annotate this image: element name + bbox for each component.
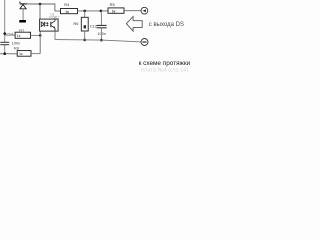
wire C13 top lead (100, 11, 102, 26)
optocoupler phototransistor (51, 19, 55, 31)
wire opto emitter down (54, 31, 56, 39)
wire opto collector stub (54, 17, 56, 19)
wire bottom-left horizontal (0, 53, 17, 55)
svg-text:C14: C14 (6, 32, 13, 36)
wire R8 right lead (31, 53, 40, 55)
resistor R7 (15, 32, 30, 38)
wire C13 bottom lead (100, 28, 102, 40)
node D junction dot on top rail (39, 3, 42, 6)
wire bottom rail (55, 40, 141, 42)
svg-text:с выхода DS: с выхода DS (149, 22, 184, 28)
optocoupler U1 box (40, 19, 59, 31)
svg-text:R4: R4 (64, 2, 70, 7)
svg-text:C13: C13 (90, 24, 97, 28)
zener diode VD cathode bar (20, 2, 27, 5)
resistor R4 (61, 9, 78, 14)
capacitor C13 (97, 25, 107, 27)
signal arrow from DS output (126, 17, 142, 32)
node G junction dot (83, 39, 86, 42)
svg-text:R6: R6 (73, 21, 79, 26)
svg-text:100n: 100n (12, 41, 21, 46)
wire R5 to input terminal (124, 10, 141, 12)
ground bar (19, 20, 26, 23)
wire zener anode lead (22, 9, 24, 20)
node C junction dot (39, 34, 42, 37)
svg-text:R7: R7 (19, 28, 25, 33)
svg-text:к схеме протяжки: к схеме протяжки (139, 60, 191, 67)
wire rail R4-R5 (78, 10, 109, 12)
node E junction dot (83, 10, 86, 13)
optocoupler coupling arrows (45, 22, 48, 26)
wire R7 left lead (5, 34, 15, 36)
wire R7 right lead (31, 34, 41, 36)
zener diode VD triangle (20, 5, 26, 9)
svg-text:6к: 6к (112, 9, 116, 13)
wire left vertical bus (4, 0, 6, 54)
resistor R8 (17, 51, 31, 57)
terminal X2 output (141, 39, 148, 46)
svg-text:плата №4 (стр.14): плата №4 (стр.14) (141, 68, 188, 73)
resistor R5 (108, 8, 124, 13)
svg-text:R5: R5 (110, 2, 116, 7)
node B junction dot (3, 52, 6, 55)
svg-text:R8: R8 (14, 46, 19, 50)
capacitor C14 (0, 42, 9, 44)
node F junction dot (100, 10, 103, 13)
optocoupler U1 LED (41, 22, 44, 27)
wire R6 top lead (84, 11, 86, 17)
wire R6 bottom lead (84, 31, 86, 40)
node H junction dot (100, 39, 103, 42)
wire top rail to opto (39, 4, 41, 19)
svg-text:6к: 6к (66, 10, 70, 14)
resistor R6 vertical (81, 17, 88, 31)
svg-text:1к: 1к (19, 52, 23, 56)
wire vertical opto-to-R8 (39, 31, 41, 53)
svg-text:PC817: PC817 (49, 16, 59, 20)
svg-text:1к: 1к (17, 34, 21, 38)
terminal X1 input (141, 7, 148, 14)
node A (dot on left bus) (3, 32, 6, 35)
wire top rail (20, 4, 61, 11)
